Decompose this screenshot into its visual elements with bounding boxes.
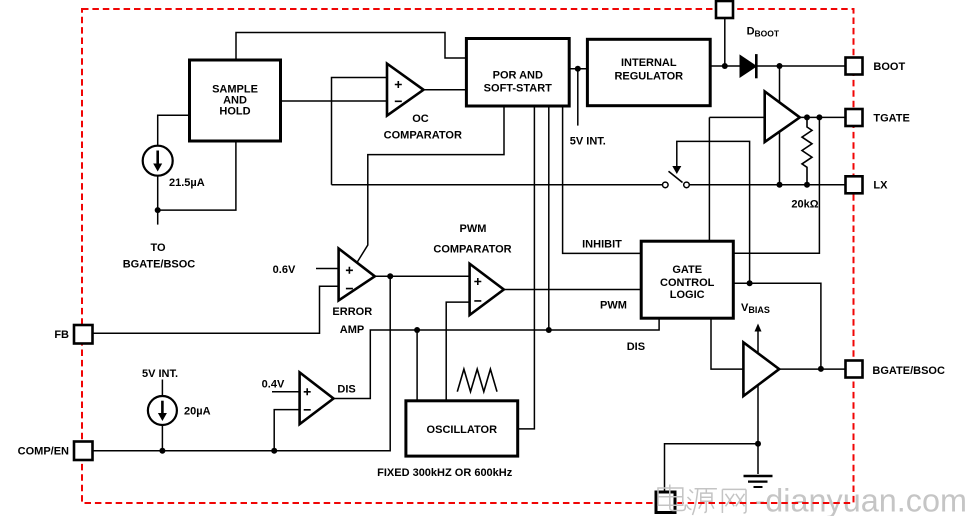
wire FB pin to error amp minus xyxy=(93,286,339,333)
svg-text:-dianyuan.com: -dianyuan.com xyxy=(755,483,967,516)
svg-text:PWM: PWM xyxy=(460,223,487,235)
node DIS line 2 xyxy=(546,327,552,333)
wire 20uA source to COMP/EN line xyxy=(161,425,163,451)
wire switch control hook xyxy=(677,141,750,283)
IC boundary red dashed border xyxy=(82,9,854,503)
node COMP/EN DIS branch xyxy=(271,448,277,454)
net labels xyxy=(123,136,645,480)
pin (bottom, unnamed) xyxy=(656,492,675,513)
wire gate control logic right to BGATE output node xyxy=(734,283,821,369)
svg-text:AMP: AMP xyxy=(340,324,364,336)
watermark glyph wang xyxy=(722,489,746,513)
wire DIS node down to oscillator top xyxy=(416,330,418,401)
wire TGATE driver output to TGATE pin xyxy=(800,116,846,118)
current source 21.5uA xyxy=(143,146,205,189)
svg-text:5V INT.: 5V INT. xyxy=(142,368,178,380)
pin TGATE xyxy=(846,109,910,126)
block POR AND SOFT-START xyxy=(466,39,569,107)
node error amp output xyxy=(387,273,393,279)
pin BOOT xyxy=(846,58,906,75)
wire node to sample/hold bottom xyxy=(158,141,236,210)
svg-text:SOFT-START: SOFT-START xyxy=(484,83,553,95)
node 5V INT xyxy=(575,66,581,72)
svg-text:REGULATOR: REGULATOR xyxy=(614,71,683,83)
block GATE CONTROL LOGIC xyxy=(641,241,733,318)
resistor 20k between TGATE and LX xyxy=(791,117,818,210)
pin COMP/EN xyxy=(18,442,93,461)
svg-text:DBOOT: DBOOT xyxy=(747,26,780,39)
svg-text:BGATE/BSOC: BGATE/BSOC xyxy=(872,365,945,377)
wire BGATE driver output to BGATE/BSOC pin xyxy=(779,368,845,370)
wire top pin to boot rail xyxy=(724,18,726,66)
wire DIS net: DIS comparator output to gate control logic bottom xyxy=(334,318,660,398)
wire sample/hold output to OC comparator minus xyxy=(281,100,387,102)
diode DBOOT xyxy=(740,26,780,79)
node TGATE output 2 xyxy=(816,114,822,120)
wire PWM comparator minus to oscillator xyxy=(446,302,469,401)
svg-text:BGATE/BSOC: BGATE/BSOC xyxy=(123,259,196,271)
current source 20uA xyxy=(148,396,211,425)
buffer BGATE driver xyxy=(743,342,779,396)
wire POR bottom to DIS line xyxy=(548,106,550,330)
switch on LX line xyxy=(663,166,690,188)
svg-text:OSCILLATOR: OSCILLATOR xyxy=(427,424,498,436)
wire current source bottom to node TO BGATE/BSOC xyxy=(157,176,159,225)
svg-text:FB: FB xyxy=(54,329,69,341)
node LX resistor bottom xyxy=(804,182,810,188)
pin FB xyxy=(54,325,92,344)
wire COMP/EN pin to error amp output node xyxy=(93,276,390,450)
node gate control right xyxy=(747,280,753,286)
svg-text:DIS: DIS xyxy=(337,384,355,396)
svg-text:HOLD: HOLD xyxy=(219,106,250,118)
wire POR to internal regulator (5V INT node) xyxy=(569,68,587,70)
node boot rail at regulator output xyxy=(722,63,728,69)
svg-text:POR AND: POR AND xyxy=(493,70,543,82)
wire POR bottom rail to error amp clamp xyxy=(357,106,504,263)
buffer TGATE driver xyxy=(765,92,800,143)
node TGATE output 1 xyxy=(804,114,810,120)
op-amp ERROR AMP xyxy=(332,249,374,337)
node ground rail xyxy=(755,441,761,447)
svg-text:OC: OC xyxy=(412,113,429,125)
wire TGATE driver input xyxy=(709,116,764,118)
op-amp DIS comparator xyxy=(300,372,356,424)
wire internal regulator to diode anode xyxy=(710,65,740,67)
svg-text:FIXED 300kHZ OR 600kHz: FIXED 300kHZ OR 600kHz xyxy=(377,467,513,479)
wire POR bottom INHIBIT to gate control logic xyxy=(563,106,642,253)
svg-text:20µA: 20µA xyxy=(184,406,211,418)
wire LX line right segment xyxy=(689,184,845,186)
svg-text:PWM: PWM xyxy=(600,300,627,312)
svg-text:ERROR: ERROR xyxy=(332,306,372,318)
svg-text:LX: LX xyxy=(873,180,888,192)
wire 0.6V stub to error amp plus xyxy=(316,268,339,270)
svg-text:0.4V: 0.4V xyxy=(262,379,285,391)
pin (top, unnamed) xyxy=(716,1,733,18)
op-amp PWM comparator xyxy=(433,223,511,315)
wire sample/hold top to POR input xyxy=(236,33,466,61)
ground xyxy=(744,476,773,487)
wire 0.4V stub to DIS comparator plus xyxy=(272,391,300,393)
VBIAS arrow on BGATE driver xyxy=(741,302,770,352)
node BGATE output xyxy=(818,366,824,372)
block SAMPLE AND HOLD xyxy=(190,60,281,141)
svg-text:DIS: DIS xyxy=(627,341,645,353)
wire gate control logic bottom to BGATE driver input xyxy=(711,318,743,369)
wire POR bottom to oscillator right xyxy=(518,106,535,429)
svg-text:COMP/EN: COMP/EN xyxy=(18,446,69,458)
svg-text:TO: TO xyxy=(150,242,166,254)
wire BGATE driver to ground xyxy=(757,384,759,474)
node LX boot rail xyxy=(777,182,783,188)
wire 5V INT to 20uA source xyxy=(161,380,163,397)
pin BGATE/BSOC xyxy=(846,361,945,378)
svg-text:GATE: GATE xyxy=(672,264,702,276)
node sample/hold current source junction xyxy=(155,207,161,213)
wire COMP/EN branch to DIS comparator minus xyxy=(274,410,299,451)
svg-text:INHIBIT: INHIBIT xyxy=(582,239,622,251)
wire error amp output to PWM comparator plus xyxy=(375,275,470,277)
svg-text:VBIAS: VBIAS xyxy=(741,302,770,315)
node boot rail after diode xyxy=(777,63,783,69)
svg-text:CONTROL: CONTROL xyxy=(660,277,715,289)
wire diode cathode to BOOT pin xyxy=(756,65,845,67)
wire ground node to bottom pin xyxy=(665,444,759,492)
svg-text:20kΩ: 20kΩ xyxy=(791,199,818,211)
wire PWM comparator output to gate control logic xyxy=(504,289,641,291)
watermark dianyuan.com xyxy=(687,489,747,515)
svg-text:COMPARATOR: COMPARATOR xyxy=(384,130,462,142)
pin LX xyxy=(846,176,889,193)
block OSCILLATOR xyxy=(406,401,518,456)
block INTERNAL REGULATOR xyxy=(587,39,710,105)
watermark glyph over bottom pin xyxy=(658,485,685,511)
wire sample/hold left stub to current source xyxy=(158,115,190,145)
node DIS line 1 xyxy=(414,327,420,333)
wire OC comparator output to POR xyxy=(424,89,467,91)
op-amp OC comparator xyxy=(384,64,462,142)
wire LX to OC comparator plus xyxy=(332,78,388,185)
wire TGATE input rail down to gate control logic top xyxy=(708,117,710,241)
wire TGATE node down to gate control logic right xyxy=(734,117,820,253)
svg-text:TGATE: TGATE xyxy=(873,113,909,125)
svg-text:INTERNAL: INTERNAL xyxy=(621,57,677,69)
svg-text:5V INT.: 5V INT. xyxy=(570,136,606,148)
wire boot rail down to LX xyxy=(779,66,781,185)
svg-text:LOGIC: LOGIC xyxy=(670,289,705,301)
svg-text:21.5µA: 21.5µA xyxy=(169,177,205,189)
oscillator sawtooth waveform xyxy=(457,369,497,392)
wire 5V INT stub xyxy=(577,69,579,126)
svg-text:COMPARATOR: COMPARATOR xyxy=(433,244,511,256)
node COMP/EN 20uA xyxy=(159,448,165,454)
watermark glyph yuan xyxy=(687,490,694,510)
svg-text:BOOT: BOOT xyxy=(873,61,905,73)
wire LX line left segment xyxy=(332,184,663,186)
svg-text:0.6V: 0.6V xyxy=(273,264,296,276)
